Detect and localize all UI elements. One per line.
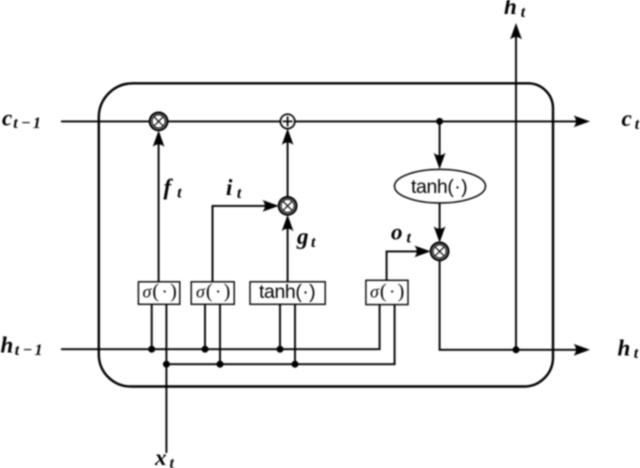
sigma1 box (forget gate) [138, 280, 179, 304]
wire: sigma2 right pin [219, 304, 221, 364]
svg-text:tanh(·): tanh(·) [259, 281, 315, 303]
arrowhead into mult-f [153, 130, 165, 147]
wire: c-line horizontal c_{t-1} to c_t [61, 120, 583, 122]
wire: x_t vertical input [165, 304, 167, 453]
wire: h_t vertical up [515, 31, 517, 350]
wire: tanh-box left pin [279, 304, 281, 349]
sigma2 box (input gate) [191, 280, 234, 304]
wire: g vertical (tanh-box top to mult-i) [287, 217, 289, 282]
wire: mult-i to add [287, 131, 289, 197]
LSTM cell body (rounded rectangle) [99, 83, 553, 386]
wire: tanh-box right pin [294, 304, 296, 364]
arrowhead h_t output right [574, 344, 591, 356]
arrowhead into mult-o top [434, 226, 446, 243]
wire: mult-o output down and right to h_t [440, 260, 583, 350]
node dot x-line pin3 [292, 361, 299, 368]
arrowhead into tanh ellipse [434, 153, 446, 170]
node on h output line [513, 346, 520, 353]
arrowhead into mult-i bottom [282, 215, 294, 232]
wire: x-line horizontal to sigma4 right pin [166, 304, 394, 364]
node dot h-line pin2 [202, 346, 209, 353]
sigma4 box (output gate) [366, 280, 408, 304]
svg-text:tanh(·): tanh(·) [411, 176, 467, 198]
mult-i circle (otimes i*g) [279, 197, 297, 215]
arrowhead c_t output [574, 116, 591, 128]
arrowhead into mult-i left [262, 200, 279, 212]
wire: i gate elbow (sigma2 top to mult-i) [213, 206, 272, 282]
wire: ellipse to mult-o [439, 203, 441, 238]
node dot h-line pin1 [148, 346, 155, 353]
tanh box (candidate) [250, 281, 325, 304]
wire: o gate elbow (sigma4 top to mult-o) [387, 251, 423, 280]
node dot h-line pin3 [277, 346, 284, 353]
arrowhead into add bottom [282, 129, 294, 146]
node dot x-line junction x_t [163, 361, 170, 368]
wire: sigma1 left pin [151, 304, 153, 349]
mult-o circle (otimes o*tanh) [431, 243, 449, 261]
node dot x-line pin2 [217, 361, 224, 368]
arrowhead h_t top [510, 23, 522, 40]
svg-text:ht: ht [504, 0, 526, 21]
wire: h_{t-1} line to sigma4 left pin [61, 304, 380, 349]
wire: c node down to tanh ellipse [439, 121, 441, 164]
mult-f circle (otimes on c-line) [150, 113, 168, 131]
tanh ellipse [395, 169, 486, 203]
node on c-line [436, 118, 443, 125]
wire: f gate vertical (sigma1 top to mult-f) [158, 133, 160, 282]
add circle (oplus on c-line) [280, 114, 294, 128]
wire: sigma2 left pin [204, 304, 206, 349]
arrowhead into mult-o left [414, 246, 431, 258]
